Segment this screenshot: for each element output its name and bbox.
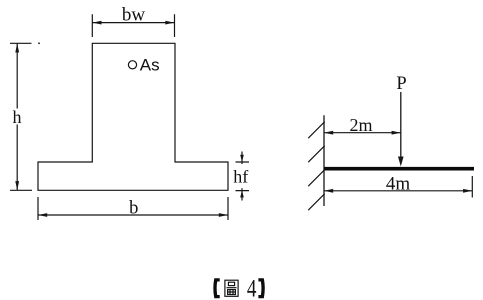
svg-text:bw: bw [122, 5, 146, 26]
svg-text:2m: 2m [349, 115, 372, 135]
svg-text:P: P [396, 74, 406, 94]
svg-text:4m: 4m [386, 174, 411, 195]
svg-text:b: b [129, 199, 138, 219]
svg-text:4: 4 [247, 274, 257, 300]
svg-text:hf: hf [233, 167, 248, 187]
svg-text:As: As [140, 56, 160, 75]
svg-text:h: h [13, 107, 22, 127]
